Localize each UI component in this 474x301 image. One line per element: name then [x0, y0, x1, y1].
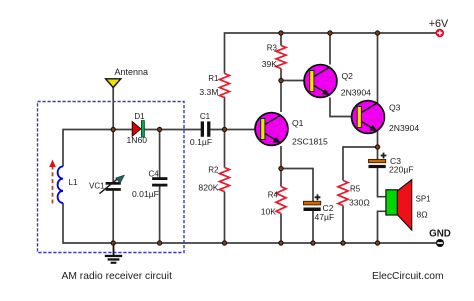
node ground speaker	[375, 241, 379, 245]
svg-text:Q1: Q1	[292, 118, 304, 128]
tuning arrow dashed	[52, 167, 54, 204]
node R3 Q1 collector junction	[279, 78, 283, 82]
node C1 R1 R2 junction	[222, 127, 226, 131]
svg-text:10K: 10K	[261, 207, 277, 217]
wire R3 bottom to Q1 collector	[280, 69, 282, 113]
node ground C2	[311, 241, 315, 245]
svg-text:VC1: VC1	[89, 182, 105, 191]
node top rail R3	[279, 31, 283, 35]
svg-text:R2: R2	[208, 166, 219, 175]
resistor R3	[276, 46, 286, 69]
svg-text:R3: R3	[267, 44, 278, 53]
svg-text:SP1: SP1	[416, 194, 432, 203]
wire Q1 emitter to R4	[280, 146, 282, 187]
svg-text:R1: R1	[208, 74, 219, 83]
svg-text:0.01µF: 0.01µF	[132, 189, 159, 199]
svg-text:GND: GND	[429, 228, 451, 239]
svg-text:220µF: 220µF	[389, 164, 414, 174]
wire bottom ground rail	[63, 242, 436, 244]
terminal GND minus sign	[437, 242, 443, 244]
diode D1 cathode bar	[141, 121, 144, 137]
svg-text:ElecCircuit.com: ElecCircuit.com	[372, 271, 444, 282]
node D1 cathode junction	[158, 127, 162, 131]
resistor R5	[338, 181, 348, 206]
wire signal C1 to Q1 base	[210, 129, 255, 131]
capacitor C4	[152, 177, 167, 186]
transistor Q3	[352, 101, 385, 134]
antenna symbol	[106, 79, 121, 88]
tuning arrow head	[49, 160, 56, 168]
capacitor C1	[201, 121, 211, 136]
node ground VC1	[111, 241, 115, 245]
wire C3 to speaker stub	[378, 168, 387, 197]
svg-text:2SC1815: 2SC1815	[292, 137, 328, 147]
svg-text:2N3904: 2N3904	[389, 123, 419, 133]
ground symbol	[105, 243, 122, 264]
wire C2 top lead	[312, 168, 314, 202]
svg-text:Antenna: Antenna	[115, 67, 149, 77]
node ground C4	[158, 241, 162, 245]
svg-text:8Ω: 8Ω	[417, 210, 429, 220]
wire signal D1 to C1	[144, 129, 201, 131]
wire speaker return stub	[378, 211, 387, 243]
wire R5 bottom lead	[342, 206, 344, 244]
variable capacitor VC1	[100, 175, 125, 193]
node Q3 emitter junction	[375, 145, 379, 149]
node top rail Q3 collector	[375, 31, 379, 35]
wire R2 bottom lead	[224, 192, 226, 244]
wire R3 top lead	[280, 32, 282, 45]
capacitor C3 electrolytic	[369, 159, 386, 168]
wire R1 branch top lead	[224, 32, 226, 73]
wire C4 lower lead	[159, 186, 161, 243]
wire C4 upper lead	[159, 130, 161, 178]
svg-text:1N60: 1N60	[127, 135, 148, 145]
dashed tuner box	[38, 102, 185, 253]
terminal +6V	[436, 29, 444, 37]
svg-text:39K: 39K	[262, 59, 278, 69]
svg-text:Q2: Q2	[342, 71, 354, 81]
wire R5 horizontal link	[343, 146, 378, 148]
wire VC1 lower lead	[112, 191, 114, 243]
node Q1 emitter junction	[279, 166, 283, 170]
svg-text:Q3: Q3	[389, 103, 401, 113]
wire Q2 emitter to Q3 base	[330, 98, 352, 117]
diode D1	[132, 122, 141, 137]
wire VC1 upper lead	[112, 130, 114, 183]
speaker SP1 horn	[397, 180, 412, 230]
svg-text:47µF: 47µF	[315, 212, 335, 222]
wire signal L1 to D1	[63, 129, 133, 131]
wire R2 top lead	[224, 130, 226, 168]
wire Q3 collector	[377, 32, 379, 103]
svg-text:C4: C4	[149, 170, 160, 179]
capacitor C2 electrolytic	[304, 201, 321, 211]
svg-text:820K: 820K	[198, 183, 218, 193]
wire Q2 base link	[281, 80, 304, 82]
node top rail Q2 collector	[328, 31, 332, 35]
wire C2 horizontal link	[281, 168, 313, 170]
inductor L1	[58, 166, 63, 203]
wire C3 top lead	[377, 147, 379, 160]
wire R5 top lead	[342, 146, 344, 180]
wire L1 branch upper	[62, 129, 64, 167]
wire C2 bottom lead	[312, 211, 314, 243]
svg-text:D1: D1	[134, 112, 145, 121]
transistor Q2	[304, 65, 337, 98]
svg-text:AM radio receiver circuit: AM radio receiver circuit	[62, 271, 173, 282]
svg-text:330Ω: 330Ω	[349, 198, 370, 208]
wire R4 bottom lead	[280, 214, 282, 244]
node ground R4	[279, 241, 283, 245]
wire R1 branch bottom lead	[224, 97, 226, 131]
wire top +6V rail	[225, 32, 437, 34]
node ground R2	[222, 241, 226, 245]
resistor R2	[220, 168, 230, 192]
resistor R1	[220, 74, 230, 98]
svg-text:R5: R5	[350, 185, 361, 194]
svg-text:0.1µF: 0.1µF	[190, 137, 212, 147]
svg-text:R4: R4	[268, 191, 279, 200]
svg-text:C1: C1	[200, 112, 211, 121]
speaker SP1 body	[386, 190, 397, 215]
terminal +6V plus sign	[437, 31, 442, 36]
svg-text:3.3M: 3.3M	[199, 87, 218, 97]
transistor Q1	[255, 113, 288, 146]
resistor R4	[276, 187, 286, 214]
node antenna junction	[111, 127, 115, 131]
wire antenna stem	[112, 87, 114, 130]
svg-text:L1: L1	[69, 178, 78, 187]
svg-text:+6V: +6V	[429, 18, 449, 30]
label C2 plus	[315, 194, 321, 200]
node ground R5	[341, 241, 345, 245]
wire Q3 emitter lead	[377, 131, 379, 147]
terminal GND	[436, 239, 444, 247]
wire L1 branch lower	[62, 203, 64, 244]
label C3 plus	[381, 153, 387, 159]
svg-text:2N3904: 2N3904	[341, 88, 371, 98]
wire Q2 collector	[329, 32, 331, 64]
